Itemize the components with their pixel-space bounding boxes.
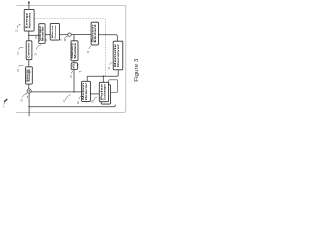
wire summer down bbox=[28, 93, 30, 116]
svg-text:Memory: Memory bbox=[72, 42, 74, 59]
summer circle plus bbox=[27, 89, 31, 93]
svg-text:Module: Module bbox=[75, 42, 77, 59]
wire I to J link bbox=[90, 93, 99, 95]
svg-text:Element: Element bbox=[94, 24, 97, 42]
patent-style block schematic, Figure 3 bbox=[0, 0, 143, 120]
label 30 arrow bbox=[64, 36, 67, 38]
box J2 shadow bbox=[101, 85, 110, 104]
outer frame right+bottom bbox=[16, 6, 126, 113]
box D storage bbox=[26, 67, 33, 84]
label 24 arc bbox=[72, 71, 74, 74]
box K receiver bbox=[113, 41, 123, 70]
box F processor bbox=[50, 24, 59, 40]
wire node to H bbox=[71, 34, 91, 36]
wire riser J bbox=[102, 76, 104, 82]
box H sensor bbox=[91, 22, 98, 45]
svg-text:Detector: Detector bbox=[85, 83, 88, 100]
box J transducer bbox=[99, 82, 108, 101]
label 16 arc bbox=[19, 65, 24, 67]
pen mark bbox=[4, 99, 7, 102]
svg-text:Converter: Converter bbox=[28, 43, 31, 58]
box A energy source bbox=[24, 9, 34, 31]
label 27 arc box K bbox=[110, 63, 113, 65]
wire F to node bbox=[59, 34, 67, 36]
svg-text:I/O: I/O bbox=[74, 64, 76, 69]
label 18 arc bbox=[22, 93, 26, 97]
wire riser to G bbox=[73, 35, 75, 41]
wire H to K bbox=[99, 35, 118, 42]
svg-text:Processor: Processor bbox=[55, 25, 57, 38]
svg-text:Figure 3: Figure 3 bbox=[134, 59, 140, 82]
label 22 arc bbox=[36, 45, 41, 50]
wire E to F bbox=[45, 34, 50, 36]
label 26 arc bbox=[79, 96, 82, 99]
node junction dot bbox=[28, 35, 29, 36]
wire antenna riser bbox=[28, 2, 30, 10]
svg-text:Receiver: Receiver bbox=[117, 44, 120, 67]
junction dot J riser bbox=[103, 76, 104, 77]
box G memory bbox=[71, 41, 78, 61]
svg-text:Storage: Storage bbox=[28, 68, 31, 82]
label 17 arc bbox=[65, 95, 70, 101]
box E regulator bbox=[39, 24, 45, 44]
box B converter bbox=[26, 41, 32, 60]
junction dot G bus bbox=[73, 91, 74, 92]
wire B to D bbox=[28, 60, 30, 67]
node circle bbox=[68, 33, 71, 36]
svg-text:Monitor: Monitor bbox=[41, 26, 44, 41]
box G2 interface bbox=[71, 63, 77, 70]
label 19 arc box H bbox=[89, 46, 92, 49]
small arc near wire corner bbox=[79, 71, 82, 72]
arrow up bbox=[28, 1, 30, 4]
box L bbox=[109, 80, 118, 93]
svg-text:Micro: Micro bbox=[52, 24, 54, 38]
wire G down to bus bbox=[73, 70, 75, 92]
svg-text:Exchanger: Exchanger bbox=[103, 84, 106, 100]
label 14 arc bbox=[19, 47, 24, 49]
outer frame top line bbox=[17, 5, 125, 7]
box I motion bbox=[82, 81, 91, 101]
wire D to summer bbox=[28, 84, 30, 89]
wire A to E bbox=[29, 34, 39, 36]
svg-text:Harvester: Harvester bbox=[28, 13, 31, 29]
wire top link I J K bbox=[87, 70, 118, 81]
wire G1 to G2 bbox=[73, 61, 75, 63]
wire summer to I bus bbox=[31, 91, 81, 93]
label 28 arc bbox=[94, 97, 97, 100]
dash-dot module boundary bbox=[29, 19, 106, 76]
junction dot bottom bus bbox=[28, 106, 29, 107]
label 12 arc bbox=[17, 24, 21, 28]
bottom bus wire bbox=[29, 105, 115, 107]
wire A to B bbox=[28, 31, 30, 41]
